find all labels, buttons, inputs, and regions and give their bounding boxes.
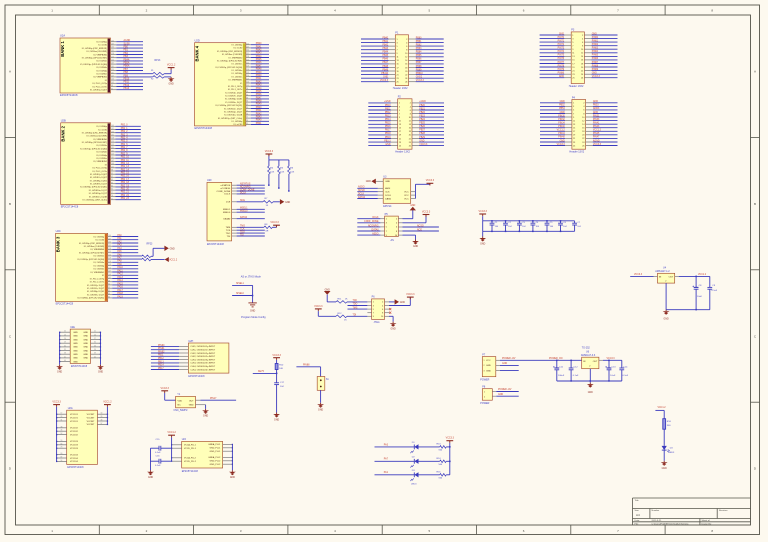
svg-text:IO, LVDS0p, (DPCLK0 INIT): IO, LVDS0p, (DPCLK0 INIT) bbox=[82, 142, 107, 144]
svg-text:nSTATUS: nSTATUS bbox=[221, 184, 231, 187]
svg-text:CLK3, LVDSCLK3p INPUT: CLK3, LVDSCLK3p INPUT bbox=[190, 359, 216, 361]
ground at P5 pin10 bbox=[412, 240, 419, 249]
connector P4 (Header 13X2) bbox=[569, 96, 585, 153]
svg-text:CLK2, LVDSCLK2n INPUT: CLK2, LVDSCLK2n INPUT bbox=[190, 356, 216, 358]
svg-text:IO, LVDS7p, DQ0T: IO, LVDS7p, DQ0T bbox=[90, 174, 108, 176]
P1 right pin wires bbox=[409, 39, 444, 82]
power port VCC1.2 at U2G bbox=[103, 401, 112, 407]
svg-text:PB45: PB45 bbox=[382, 55, 388, 57]
svg-text:IO, LVDS11n, DQ1B: IO, LVDS11n, DQ1B bbox=[224, 115, 243, 117]
svg-text:GND: GND bbox=[662, 468, 667, 470]
svg-text:23: 23 bbox=[399, 142, 401, 144]
svg-text:PB2_0: PB2_0 bbox=[121, 125, 129, 127]
svg-text:PA1: PA1 bbox=[384, 471, 389, 474]
FPGA IO bank IC U2D (BANK 4) bbox=[195, 38, 246, 130]
FPGA IO bank IC U2B (BANK 2) bbox=[61, 118, 111, 208]
svg-text:PB47: PB47 bbox=[256, 97, 262, 99]
svg-text:U2F: U2F bbox=[207, 179, 212, 182]
capacitor C9 bbox=[707, 276, 717, 309]
svg-text:PB2: PB2 bbox=[124, 53, 129, 55]
svg-text:PB12: PB12 bbox=[158, 358, 164, 360]
svg-text:PB3: PB3 bbox=[124, 56, 129, 58]
svg-text:JTAG: JTAG bbox=[374, 321, 380, 324]
svg-text:GND: GND bbox=[274, 419, 279, 421]
svg-text:PB21: PB21 bbox=[419, 108, 425, 110]
ground at U4 bbox=[663, 310, 670, 321]
svg-text:10: 10 bbox=[395, 235, 397, 237]
P7 5V wire to regulator bbox=[496, 358, 582, 360]
svg-text:13: 13 bbox=[572, 56, 574, 58]
svg-text:4: 4 bbox=[582, 38, 583, 40]
svg-text:116: 116 bbox=[246, 69, 249, 71]
svg-text:11: 11 bbox=[573, 120, 575, 122]
svg-text:8: 8 bbox=[382, 313, 383, 315]
svg-text:POWER: POWER bbox=[480, 379, 489, 382]
svg-text:PB61: PB61 bbox=[416, 41, 422, 43]
svg-text:GND: GND bbox=[73, 339, 78, 341]
svg-text:23: 23 bbox=[397, 78, 399, 80]
svg-text:PB22: PB22 bbox=[419, 112, 425, 114]
svg-text:PB410: PB410 bbox=[381, 73, 389, 75]
svg-text:PIN69: PIN69 bbox=[592, 69, 599, 71]
svg-text:101: 101 bbox=[111, 166, 114, 168]
svg-text:68: 68 bbox=[246, 120, 248, 122]
svg-text:2: 2 bbox=[484, 396, 485, 398]
svg-text:VCC3.3: VCC3.3 bbox=[265, 150, 274, 153]
svg-text:IO, LVDS11n, DQ1B: IO, LVDS11n, DQ1B bbox=[89, 196, 108, 198]
connector P5 (AS programming header) bbox=[385, 213, 399, 242]
svg-text:PA0: PA0 bbox=[117, 234, 122, 237]
svg-text:PB0: PB0 bbox=[124, 47, 129, 49]
ground at R7 bbox=[280, 199, 291, 204]
svg-text:113: 113 bbox=[111, 69, 114, 71]
svg-text:nCONFIG: nCONFIG bbox=[220, 188, 230, 190]
svg-text:ASDO: ASDO bbox=[372, 233, 379, 236]
svg-text:IO, LVDS0p: IO, LVDS0p bbox=[94, 236, 105, 238]
svg-text:PB2_19: PB2_19 bbox=[121, 185, 130, 187]
svg-text:119: 119 bbox=[111, 63, 114, 65]
svg-text:GND: GND bbox=[593, 101, 598, 103]
svg-text:VCCIO4: VCCIO4 bbox=[70, 461, 79, 463]
svg-text:TMS: TMS bbox=[240, 226, 245, 228]
svg-text:PB7: PB7 bbox=[124, 69, 129, 71]
svg-text:RP13: RP13 bbox=[155, 60, 161, 62]
svg-text:IO, LVDS8p, DQS1: IO, LVDS8p, DQS1 bbox=[87, 291, 105, 293]
svg-text:21: 21 bbox=[573, 138, 575, 140]
svg-text:95: 95 bbox=[246, 91, 248, 93]
Y1 output wire bbox=[196, 398, 237, 400]
P6 TDO wire bbox=[348, 304, 368, 306]
P4 left pin wires bbox=[540, 103, 572, 146]
svg-text:22: 22 bbox=[405, 74, 407, 76]
svg-text:EP2C5T144C8: EP2C5T144C8 bbox=[61, 205, 79, 209]
svg-text:PIN47: PIN47 bbox=[593, 137, 600, 139]
svg-text:16: 16 bbox=[405, 64, 407, 66]
svg-text:PB67: PB67 bbox=[416, 62, 422, 64]
svg-text:NCSO: NCSO bbox=[417, 225, 424, 227]
svg-text:PB42: PB42 bbox=[256, 81, 262, 83]
svg-text:PA17: PA17 bbox=[117, 289, 123, 292]
svg-text:IO, LVDS9n, DQ1T: IO, LVDS9n, DQ1T bbox=[90, 184, 108, 186]
U2J left pin wires bbox=[171, 437, 182, 461]
svg-text:107: 107 bbox=[108, 271, 111, 273]
power indicator net VCC1.2 bbox=[655, 407, 666, 419]
svg-text:Header 13X2: Header 13X2 bbox=[395, 151, 410, 154]
svg-text:PIN66: PIN66 bbox=[592, 58, 599, 60]
svg-text:10uF: 10uF bbox=[697, 296, 703, 298]
svg-text:19: 19 bbox=[397, 71, 399, 73]
svg-text:VCCINT: VCCINT bbox=[87, 414, 95, 416]
svg-text:TCK: TCK bbox=[226, 230, 231, 232]
svg-text:IO, inCS0: IO, inCS0 bbox=[234, 124, 244, 126]
svg-text:U2D: U2D bbox=[195, 38, 200, 42]
svg-text:IO, LVDS8p, DQS1: IO, LVDS8p, DQS1 bbox=[225, 99, 243, 101]
svg-text:CLK3, LVDSCLK3n INPUT: CLK3, LVDSCLK3n INPUT bbox=[190, 363, 216, 365]
svg-text:107: 107 bbox=[111, 160, 114, 162]
svg-text:21: 21 bbox=[94, 331, 96, 333]
svg-text:3: 3 bbox=[386, 223, 387, 225]
svg-text:EP2C5T144C8: EP2C5T144C8 bbox=[71, 365, 88, 368]
svg-text:U2A: U2A bbox=[60, 34, 65, 38]
svg-text:NSTATUS: NSTATUS bbox=[240, 183, 251, 186]
svg-text:13: 13 bbox=[573, 124, 575, 126]
FPGA IO bank IC U2C (BANK 3) bbox=[56, 229, 108, 306]
svg-text:VCC: VCC bbox=[404, 195, 409, 197]
svg-text:PA16: PA16 bbox=[117, 286, 123, 289]
svg-text:33: 33 bbox=[94, 345, 96, 347]
svg-text:42: 42 bbox=[94, 356, 96, 358]
svg-text:VCC1.2: VCC1.2 bbox=[593, 130, 602, 132]
svg-text:VCC1.2: VCC1.2 bbox=[167, 63, 176, 66]
svg-text:PIN31: PIN31 bbox=[593, 115, 600, 117]
svg-text:NCSO: NCSO bbox=[358, 190, 365, 192]
svg-text:VCC3.3: VCC3.3 bbox=[592, 76, 601, 78]
U2E left pin wires bbox=[59, 331, 70, 365]
U2H pin stubs bbox=[179, 346, 188, 369]
svg-text:MSEL1: MSEL1 bbox=[236, 283, 244, 285]
svg-text:VCC: VCC bbox=[486, 360, 491, 362]
svg-text:PB2_4: PB2_4 bbox=[121, 138, 129, 140]
svg-text:VCCA_PLL1: VCCA_PLL1 bbox=[184, 444, 197, 447]
svg-text:PB60: PB60 bbox=[416, 37, 422, 39]
svg-text:IO, LVDS4p: IO, LVDS4p bbox=[232, 73, 243, 75]
svg-text:GND: GND bbox=[385, 181, 390, 183]
svg-text:PA19: PA19 bbox=[117, 295, 123, 298]
U2D pin stubs bbox=[246, 43, 251, 125]
svg-text:113: 113 bbox=[246, 72, 249, 74]
svg-text:CLK2, LVDSCLK2p INPUT: CLK2, LVDSCLK2p INPUT bbox=[190, 353, 216, 355]
svg-text:DCLK: DCLK bbox=[358, 194, 365, 196]
svg-text:VCC3.3: VCC3.3 bbox=[272, 354, 281, 357]
svg-text:PB47: PB47 bbox=[382, 62, 388, 64]
svg-text:U2C: U2C bbox=[56, 229, 61, 233]
U2B pin stubs bbox=[111, 125, 116, 200]
power port VCC3.3 at P5 bbox=[422, 210, 431, 216]
svg-text:EP2C5T144C8: EP2C5T144C8 bbox=[67, 466, 84, 469]
svg-text:122: 122 bbox=[108, 255, 111, 257]
resistor R10 bbox=[275, 360, 284, 374]
svg-text:39: 39 bbox=[94, 353, 96, 355]
svg-text:IO, LVDS1n: IO, LVDS1n bbox=[96, 61, 107, 63]
svg-text:6: 6 bbox=[382, 309, 383, 311]
resistor R13 bbox=[437, 443, 450, 451]
svg-text:IO, LVDS10n, DQ1T: IO, LVDS10n, DQ1T bbox=[89, 190, 108, 192]
svg-text:PB42: PB42 bbox=[382, 44, 388, 46]
svg-text:IO, VREFB0N0: IO, VREFB0N0 bbox=[229, 57, 243, 59]
svg-text:6: 6 bbox=[396, 227, 397, 229]
svg-text:Date:: Date: bbox=[635, 519, 641, 522]
svg-text:PB69: PB69 bbox=[416, 69, 422, 71]
svg-text:PB49: PB49 bbox=[256, 104, 262, 106]
svg-text:CONF_DONE: CONF_DONE bbox=[240, 189, 255, 191]
svg-text:PB2_11: PB2_11 bbox=[121, 160, 130, 162]
svg-text:GND: GND bbox=[366, 181, 371, 183]
svg-text:PA4: PA4 bbox=[117, 247, 122, 250]
ground at U3 pin GND bbox=[366, 179, 376, 184]
svg-text:U2G: U2G bbox=[68, 407, 73, 410]
svg-text:AMS1117-3.3: AMS1117-3.3 bbox=[581, 354, 596, 357]
svg-text:A: A bbox=[9, 70, 11, 74]
svg-text:113: 113 bbox=[111, 154, 114, 156]
svg-text:PB13: PB13 bbox=[158, 361, 164, 363]
svg-text:116: 116 bbox=[111, 150, 114, 152]
svg-text:44: 44 bbox=[64, 360, 66, 362]
U4 ground rail bbox=[666, 283, 710, 310]
svg-text:IO, LVDS1n: IO, LVDS1n bbox=[96, 145, 107, 147]
svg-text:PB45: PB45 bbox=[256, 91, 262, 93]
svg-text:A4: A4 bbox=[636, 513, 640, 517]
ground at P6 top-left bbox=[324, 289, 331, 302]
svg-text:VCCIO4: VCCIO4 bbox=[70, 454, 79, 456]
svg-text:7: 7 bbox=[397, 50, 398, 52]
power connector P8 bbox=[480, 386, 492, 406]
svg-text:AGND: AGND bbox=[124, 39, 131, 42]
svg-text:IO, LVDS4n: IO, LVDS4n bbox=[232, 70, 243, 72]
svg-text:PB43: PB43 bbox=[256, 85, 262, 87]
svg-text:GND: GND bbox=[169, 83, 174, 85]
svg-text:GND: GND bbox=[83, 358, 88, 360]
MSEL0 wire bbox=[232, 285, 253, 303]
capacitor C16 (PLL2) bbox=[151, 455, 172, 466]
svg-text:137: 137 bbox=[111, 44, 114, 46]
svg-text:9: 9 bbox=[386, 235, 387, 237]
svg-text:25: 25 bbox=[397, 82, 399, 84]
svg-text:PB44: PB44 bbox=[382, 52, 388, 54]
power port VCC1.2 at RP2 bbox=[165, 257, 178, 262]
svg-text:119: 119 bbox=[111, 147, 114, 149]
svg-text:119: 119 bbox=[246, 66, 249, 68]
MSEL1 wire bbox=[232, 283, 253, 285]
svg-text:134: 134 bbox=[111, 131, 114, 133]
P3 right net labels bbox=[592, 33, 601, 78]
connector P3 (Header 13X2) bbox=[569, 29, 585, 88]
resistor R8 on TMS bbox=[237, 224, 277, 233]
svg-text:ASDI: ASDI bbox=[385, 187, 390, 190]
svg-text:VCCIO2: VCCIO2 bbox=[70, 428, 79, 430]
svg-text:137: 137 bbox=[246, 47, 249, 49]
svg-text:IO, VREFB0N1: IO, VREFB0N1 bbox=[93, 161, 107, 163]
svg-text:PB63: PB63 bbox=[416, 48, 422, 50]
U2E right pin wires bbox=[91, 331, 102, 365]
svg-text:SL/90: SL/90 bbox=[124, 43, 131, 45]
svg-text:20: 20 bbox=[64, 331, 66, 333]
svg-text:110: 110 bbox=[108, 267, 111, 269]
svg-text:11: 11 bbox=[399, 121, 401, 123]
svg-text:IO, LVDS1p, (DPCLK1 DQS0): IO, LVDS1p, (DPCLK1 DQS0) bbox=[77, 259, 104, 261]
svg-text:PB4A: PB4A bbox=[124, 58, 130, 61]
svg-text:95: 95 bbox=[108, 284, 110, 286]
svg-text:PB12: PB12 bbox=[385, 112, 391, 114]
svg-text:13: 13 bbox=[399, 124, 401, 126]
svg-text:71: 71 bbox=[111, 198, 113, 200]
capacitor C5 bbox=[545, 220, 554, 232]
svg-text:PIN33: PIN33 bbox=[593, 119, 600, 121]
svg-text:PB44: PB44 bbox=[256, 88, 262, 90]
power port VCC3.3 at pull-ups bbox=[265, 150, 274, 156]
svg-text:PIN91: PIN91 bbox=[158, 348, 165, 350]
svg-text:IO, LVDSxx (CLKUSR): IO, LVDSxx (CLKUSR) bbox=[87, 136, 108, 138]
svg-text:IO, VREFB0N1: IO, VREFB0N1 bbox=[91, 272, 105, 274]
connector P6 (JTAG header) bbox=[367, 296, 384, 325]
svg-text:GND3: GND3 bbox=[593, 108, 600, 110]
P7 GND wires bbox=[496, 363, 519, 370]
svg-text:PIN92: PIN92 bbox=[158, 351, 165, 353]
U2A pin stubs bbox=[111, 40, 117, 90]
title block bbox=[633, 498, 751, 525]
capacitor C14 bbox=[619, 360, 628, 381]
svg-text:IO, LVDS7p, DQ0T: IO, LVDS7p, DQ0T bbox=[87, 285, 105, 287]
svg-text:GND: GND bbox=[83, 343, 88, 345]
ground at U6 bbox=[587, 381, 594, 394]
svg-text:PB52: PB52 bbox=[559, 105, 565, 107]
svg-text:23: 23 bbox=[572, 74, 574, 76]
svg-text:IO, LVDS0p: IO, LVDS0p bbox=[232, 121, 243, 123]
svg-text:IO, PLL1_OUTp: IO, PLL1_OUTp bbox=[93, 83, 108, 85]
svg-text:VCC3.3: VCC3.3 bbox=[419, 144, 428, 146]
svg-text:22: 22 bbox=[582, 138, 584, 140]
U3 VCC pins wiring bbox=[411, 183, 430, 198]
U2A net labels bbox=[124, 39, 131, 90]
svg-text:22: 22 bbox=[409, 138, 411, 140]
svg-text:PB44: PB44 bbox=[256, 56, 262, 58]
svg-text:PB17: PB17 bbox=[385, 130, 391, 132]
svg-text:PIN73: PIN73 bbox=[558, 48, 565, 50]
LED D2 with net wire bbox=[375, 456, 440, 467]
svg-text:PB41: PB41 bbox=[256, 110, 262, 112]
svg-text:MSEL0: MSEL0 bbox=[223, 212, 231, 214]
svg-text:PB40: PB40 bbox=[256, 107, 262, 109]
svg-text:4: 4 bbox=[583, 106, 584, 108]
svg-text:CONF_DONE: CONF_DONE bbox=[364, 221, 379, 223]
svg-text:GND: GND bbox=[419, 140, 424, 142]
svg-text:IO, PLL1_OUTp: IO, PLL1_OUTp bbox=[93, 168, 108, 170]
svg-text:GND: GND bbox=[486, 370, 491, 372]
svg-text:IO, LVDS0p, (DPCLK0 INIT): IO, LVDS0p, (DPCLK0 INIT) bbox=[217, 61, 242, 63]
P6 no-connect pins 6,8 bbox=[385, 308, 392, 314]
svg-text:PB9: PB9 bbox=[124, 75, 129, 77]
svg-text:GND: GND bbox=[73, 361, 78, 363]
cap bank rails bbox=[483, 216, 575, 231]
svg-text:PB43: PB43 bbox=[382, 48, 388, 50]
U4 input wire VCC3.3 bbox=[630, 274, 657, 276]
svg-text:IO, LVDS9n, DQ1T: IO, LVDS9n, DQ1T bbox=[87, 294, 105, 296]
svg-text:PB47: PB47 bbox=[256, 65, 262, 67]
svg-text:VCC: VCC bbox=[404, 198, 409, 200]
svg-text:10K: 10K bbox=[280, 171, 284, 173]
svg-text:PA2: PA2 bbox=[117, 240, 122, 243]
svg-text:IO, LVDS0p: IO, LVDS0p bbox=[96, 126, 107, 128]
svg-text:PB14: PB14 bbox=[385, 119, 391, 121]
svg-text:14: 14 bbox=[405, 60, 407, 62]
svg-text:PB23: PB23 bbox=[419, 115, 425, 117]
svg-text:PIN74: PIN74 bbox=[558, 51, 565, 53]
svg-text:122: 122 bbox=[246, 62, 249, 64]
svg-text:19: 19 bbox=[399, 135, 401, 137]
svg-text:125: 125 bbox=[108, 251, 111, 253]
svg-text:PIN44: PIN44 bbox=[558, 133, 565, 135]
P6 pin4 wire to VCC3.3 bbox=[385, 297, 411, 305]
svg-text:PB2_9: PB2_9 bbox=[121, 153, 129, 155]
svg-text:DATA0: DATA0 bbox=[223, 218, 231, 221]
connector P2 (Header 13X2) bbox=[395, 96, 412, 154]
svg-text:PA6: PA6 bbox=[117, 253, 122, 256]
svg-text:PB54: PB54 bbox=[559, 108, 565, 110]
U2C pin stubs bbox=[108, 235, 113, 298]
svg-text:98: 98 bbox=[246, 88, 248, 90]
svg-text:PB40: PB40 bbox=[382, 37, 388, 39]
svg-text:3: 3 bbox=[484, 370, 485, 372]
svg-text:15: 15 bbox=[399, 128, 401, 130]
svg-text:VCC1.2: VCC1.2 bbox=[103, 401, 112, 404]
P5 pin4 wire to VCC3.3 bbox=[398, 215, 426, 223]
svg-text:VCCD_PLL1: VCCD_PLL1 bbox=[184, 448, 197, 450]
svg-text:19: 19 bbox=[572, 67, 574, 69]
P1 left net labels bbox=[380, 37, 389, 82]
svg-text:GND: GND bbox=[83, 332, 88, 334]
svg-text:10K: 10K bbox=[270, 171, 274, 173]
P6 pin10 wire to GND bbox=[385, 316, 394, 321]
svg-text:PIN86: PIN86 bbox=[558, 73, 565, 75]
svg-text:PA8: PA8 bbox=[117, 260, 122, 263]
svg-text:C:\Users\PCB\EP2C5T144C8 SchDo: C:\Users\PCB\EP2C5T144C8 SchDoc bbox=[652, 522, 690, 525]
power port VCC1.2 at RP13 bbox=[167, 63, 176, 69]
svg-text:GND: GND bbox=[560, 112, 565, 114]
svg-text:GND: GND bbox=[318, 410, 323, 412]
svg-text:U2H: U2H bbox=[188, 340, 193, 343]
svg-text:PB11: PB11 bbox=[385, 108, 391, 110]
svg-text:DCLK: DCLK bbox=[240, 192, 247, 194]
svg-text:DATA: DATA bbox=[385, 197, 391, 200]
svg-text:IO, LVDS0p (CRC_ERROR): IO, LVDS0p (CRC_ERROR) bbox=[79, 243, 104, 245]
svg-text:83: 83 bbox=[108, 297, 110, 299]
svg-text:1: 1 bbox=[397, 39, 398, 41]
svg-text:86: 86 bbox=[108, 293, 110, 295]
svg-text:IO, LVDS7n, DQ0T: IO, LVDS7n, DQ0T bbox=[87, 288, 105, 290]
svg-text:IO, LVDS5n: IO, LVDS5n bbox=[94, 269, 105, 271]
capacitor C8 bbox=[693, 276, 703, 309]
svg-text:PB40: PB40 bbox=[256, 75, 262, 77]
svg-text:PB29: PB29 bbox=[419, 137, 425, 139]
svg-text:110: 110 bbox=[111, 157, 114, 159]
svg-text:GND: GND bbox=[148, 477, 153, 479]
svg-text:IO, VREFB0N0: IO, VREFB0N0 bbox=[93, 54, 107, 56]
svg-text:14: 14 bbox=[581, 56, 583, 58]
svg-text:EP2C5T144C8: EP2C5T144C8 bbox=[188, 375, 205, 378]
svg-text:GND: GND bbox=[73, 343, 78, 345]
svg-text:PIN30: PIN30 bbox=[558, 115, 565, 117]
svg-text:140: 140 bbox=[111, 40, 114, 42]
svg-text:IO, LVDS0p: IO, LVDS0p bbox=[96, 42, 107, 44]
